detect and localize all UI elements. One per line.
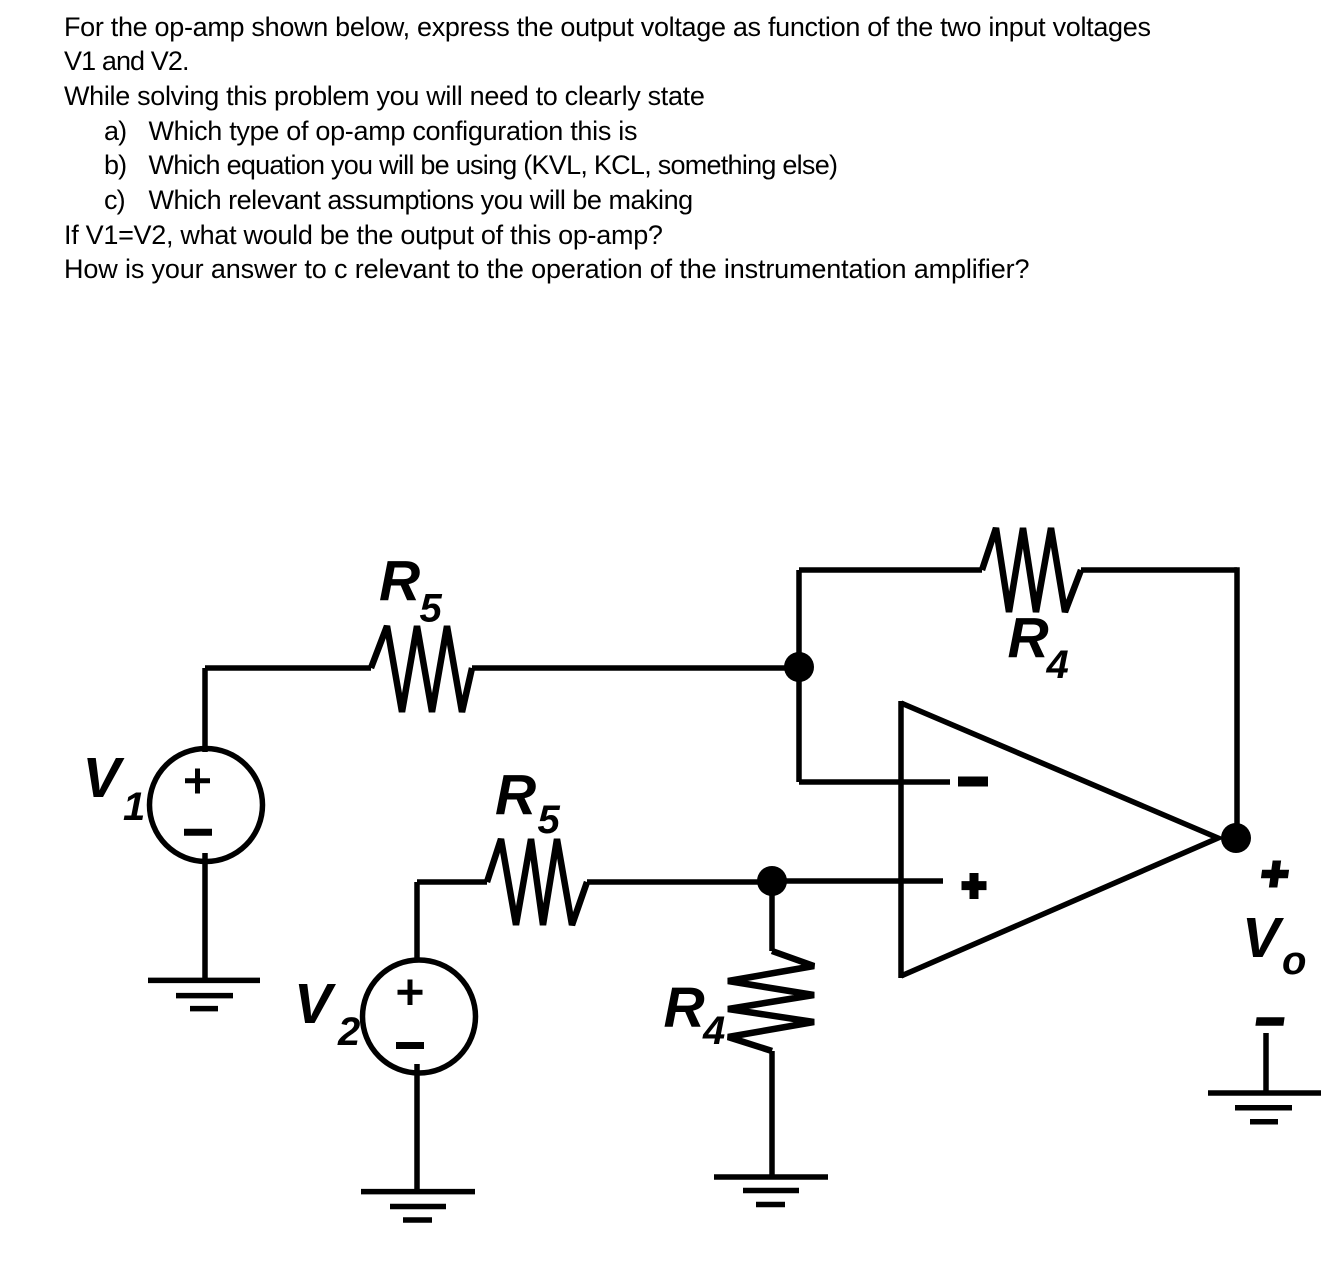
op-amp U1: [901, 701, 1218, 978]
wire R4 to ground: [769, 1051, 775, 1177]
voltage source V1: [150, 749, 263, 862]
wire V1 to R5: [205, 665, 371, 671]
svg-text:o: o: [1282, 939, 1306, 983]
V1 plus mark: [185, 769, 210, 794]
svg-text:R: R: [495, 764, 536, 828]
output minus mark: [1256, 1017, 1284, 1026]
wire output ground stub: [1263, 1033, 1269, 1093]
wire V2 top vertical: [414, 882, 420, 962]
wire node A to inverting input: [799, 779, 950, 785]
resistor R5 (lower): [487, 839, 587, 925]
wire V1 bottom vertical: [202, 853, 208, 980]
problem statement text: [64, 10, 1151, 287]
node A (inverting input junction): [784, 652, 814, 682]
op-amp minus mark: [958, 777, 988, 787]
svg-text:V: V: [1242, 906, 1284, 970]
V1 minus mark: [184, 829, 212, 836]
svg-text:1: 1: [123, 785, 145, 829]
resistor R4 (to ground): [728, 951, 814, 1051]
wire R5 to node A: [472, 665, 799, 671]
resistor R5 (top): [371, 626, 472, 712]
svg-text:2: 2: [337, 1010, 360, 1054]
wire node A vertical (up to feedback, down to corner): [796, 570, 802, 782]
svg-text:4: 4: [702, 1009, 725, 1053]
svg-text:R: R: [664, 976, 705, 1040]
wire feedback right vertical to output: [1234, 567, 1240, 838]
node output: [1221, 823, 1251, 853]
svg-text:4: 4: [1046, 643, 1069, 687]
ground (output reference): [1208, 1093, 1321, 1122]
output plus mark: [1260, 861, 1291, 888]
voltage source V2: [363, 960, 476, 1073]
svg-text:5: 5: [420, 587, 443, 631]
node B (non-inverting input junction): [757, 866, 787, 896]
svg-text:5: 5: [538, 798, 561, 842]
wire node B down to R4: [769, 881, 775, 951]
wire feedback top left: [799, 567, 982, 573]
V2 plus mark: [398, 980, 423, 1006]
wire feedback top right: [1081, 567, 1237, 573]
op-amp plus mark: [962, 873, 987, 899]
svg-text:R: R: [379, 550, 420, 614]
wire node B to non-inverting input: [772, 878, 943, 884]
ground (below V2): [361, 1192, 475, 1220]
wire V2 to R5 lower: [417, 879, 487, 885]
svg-text:V: V: [83, 746, 125, 810]
V2 minus mark: [396, 1042, 424, 1049]
wire V2 bottom vertical: [414, 1064, 420, 1192]
svg-text:R: R: [1008, 607, 1049, 671]
svg-text:V: V: [294, 972, 336, 1036]
ground (below R4): [714, 1177, 828, 1205]
ground (below V1): [148, 980, 260, 1008]
wire V1 top vertical: [202, 668, 208, 752]
resistor R4 (feedback): [982, 528, 1081, 612]
wire R5 lower to node B: [587, 879, 772, 885]
